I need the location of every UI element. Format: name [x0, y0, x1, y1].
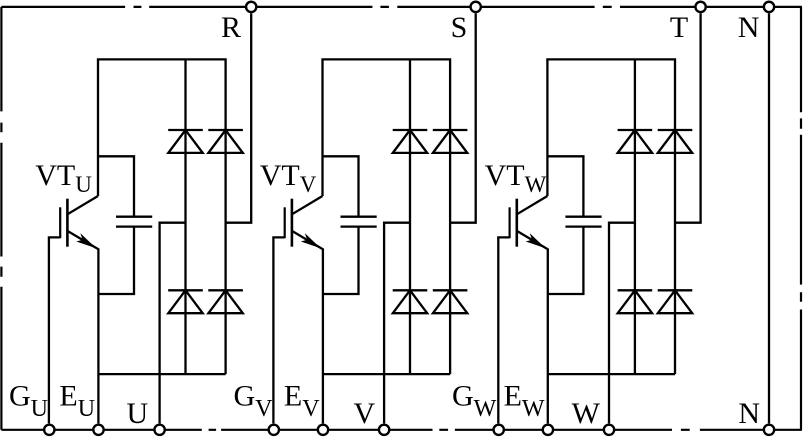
- svg-text:V: V: [353, 397, 375, 430]
- svg-text:N: N: [738, 397, 760, 430]
- svg-text:T: T: [670, 11, 688, 44]
- svg-text:N: N: [738, 11, 760, 44]
- svg-text:R: R: [221, 11, 241, 44]
- svg-text:U: U: [126, 397, 148, 430]
- svg-text:W: W: [572, 397, 601, 430]
- svg-text:S: S: [451, 11, 468, 44]
